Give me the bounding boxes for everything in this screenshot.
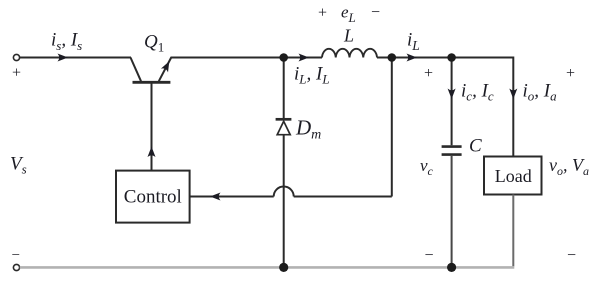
svg-text:Dm: Dm: [295, 116, 321, 143]
svg-text:−: −: [371, 4, 380, 21]
svg-text:L: L: [343, 26, 354, 46]
load box: [484, 157, 542, 195]
arrow i_L left: [299, 54, 310, 62]
control box: [116, 171, 190, 223]
feedback wire from node B: [190, 58, 392, 197]
svg-text:vc: vc: [420, 156, 434, 178]
arrows: [58, 54, 518, 201]
svg-text:iL, IL: iL, IL: [294, 64, 330, 87]
wire input top: [20, 57, 131, 59]
arrow feedback (left): [210, 193, 221, 201]
svg-text:is, Is: is, Is: [51, 30, 82, 53]
svg-text:io, Ia: io, Ia: [523, 81, 558, 104]
svg-text:Q1: Q1: [144, 32, 164, 55]
wire collector to node A: [171, 57, 323, 59]
arrow control-base (up): [148, 147, 156, 158]
wire load bottom: [512, 195, 514, 267]
svg-text:vo, Va: vo, Va: [549, 155, 589, 178]
junction dots: [279, 53, 456, 272]
inductor L: [322, 49, 377, 58]
arrow i_s: [58, 54, 69, 62]
diode Dm branch: [276, 58, 292, 267]
svg-text:C: C: [469, 136, 482, 157]
svg-text:eL: eL: [341, 3, 356, 25]
arrow emitter Q1: [161, 59, 173, 72]
svg-text:−: −: [424, 247, 433, 264]
arrow i_c (down): [448, 89, 456, 100]
terminal bottom-left: [13, 264, 19, 270]
node C dot: [447, 53, 456, 62]
svg-text:+: +: [318, 5, 327, 22]
svg-text:Vs: Vs: [10, 154, 27, 177]
capacitor C branch: [442, 58, 462, 267]
svg-text:iL: iL: [407, 30, 420, 54]
rail dot capacitor: [447, 263, 456, 272]
bottom rail (gray): [20, 266, 515, 269]
arrow i_L right: [407, 54, 418, 62]
terminal top-left: [13, 54, 19, 60]
wire load branch vertical top: [512, 57, 514, 157]
svg-text:Load: Load: [495, 166, 532, 186]
transistor Q1: [131, 58, 172, 171]
node A dot: [279, 53, 288, 62]
svg-text:+: +: [424, 65, 433, 82]
svg-text:−: −: [567, 247, 576, 264]
svg-text:Control: Control: [124, 187, 182, 208]
svg-text:+: +: [566, 65, 575, 82]
wire inductor to load corner: [377, 57, 513, 59]
svg-text:−: −: [12, 248, 20, 264]
node B dot: [388, 53, 397, 62]
rail dot diode: [279, 263, 288, 272]
svg-text:ic, Ic: ic, Ic: [461, 81, 494, 104]
svg-text:+: +: [12, 65, 21, 82]
arrow i_o (down): [509, 89, 517, 100]
